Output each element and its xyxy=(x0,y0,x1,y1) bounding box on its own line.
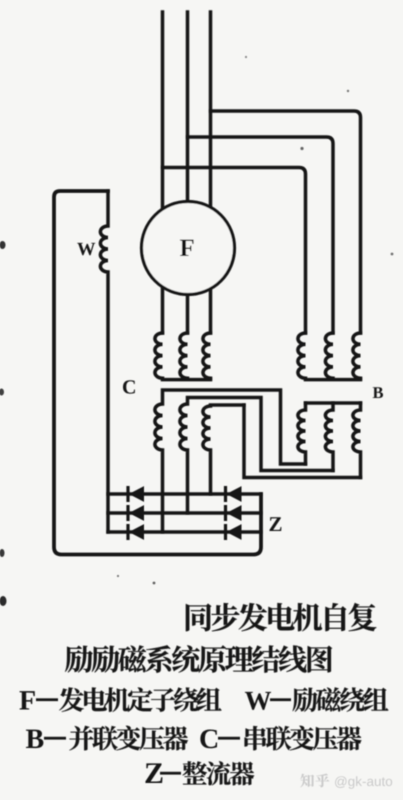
wire branch phase3 to B coil b3 xyxy=(211,111,361,333)
transformer C primary coil 1 xyxy=(155,333,163,378)
label C (series transformer) xyxy=(123,380,135,393)
label W (field winding) xyxy=(77,243,95,255)
diode D1 (left column, row y=494) xyxy=(126,486,129,502)
wire rectifier row 2 xyxy=(108,511,261,515)
caption line 3: F—发电机定子绕组 W—励磁绕组 xyxy=(19,691,34,709)
transformer B secondary coil b2 xyxy=(325,403,333,471)
caption line 2 xyxy=(65,646,93,673)
wire B secondary star bus xyxy=(306,401,361,405)
scan specks (paper noise) xyxy=(0,56,393,606)
field winding W on left bus xyxy=(100,191,108,532)
watermark 知乎 @gk-auto xyxy=(300,774,392,789)
transformer C primary coil 2 xyxy=(180,333,188,378)
caption line 1 xyxy=(186,604,211,632)
transformer B secondary coil b1 xyxy=(298,403,306,464)
wire C primary star bus xyxy=(163,378,211,382)
wire B primary star bus xyxy=(306,378,361,382)
diode D6 (right column, row y=532) xyxy=(224,524,227,540)
wire branch phase1 to B coil b1 xyxy=(163,168,306,334)
transformer B primary coil 1 xyxy=(298,333,306,378)
transformer C primary coil 3 xyxy=(203,333,211,378)
wire phase line 3 (right) xyxy=(209,12,213,333)
transformer C secondary coil c1 + link wire to b1 xyxy=(155,390,306,532)
wire branch phase2 to B coil b2 xyxy=(188,137,334,333)
diode D2 (left column, row y=513) xyxy=(126,505,129,521)
transformer B primary coil 3 xyxy=(353,333,361,378)
diode D5 (right column, row y=513) xyxy=(224,505,227,521)
label B (shunt transformer) xyxy=(373,387,383,398)
label Z (rectifier) xyxy=(270,517,282,531)
caption line 5: Z—整流器 xyxy=(145,763,162,783)
transformer C secondary coil c2 + link wire to b2 xyxy=(180,398,333,514)
transformer B secondary coil b3 xyxy=(353,403,361,478)
wire field loop: top + left + bottom + right DC bus xyxy=(54,191,261,555)
generator stator F xyxy=(142,202,235,295)
caption line 4: B—并联变压器 C—串联变压器 xyxy=(26,730,43,748)
diode D3 (left column, row y=532) xyxy=(126,524,129,540)
wire rectifier row 3 xyxy=(108,530,261,534)
wire rectifier row 1 xyxy=(108,492,261,496)
wire phase line 1 (left) xyxy=(161,12,165,333)
transformer B primary coil 2 xyxy=(325,333,333,378)
wire phase line 2 (middle) xyxy=(186,12,190,333)
transformer C secondary coil c3 + link wire to b3 xyxy=(244,405,361,478)
diode D4 (right column, row y=494) xyxy=(224,486,227,502)
